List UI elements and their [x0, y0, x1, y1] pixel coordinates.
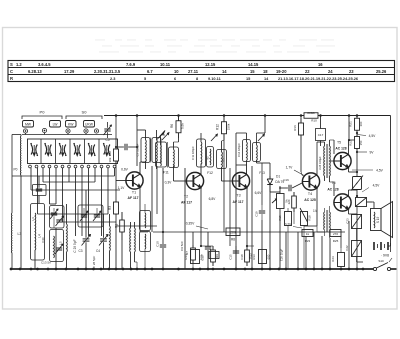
wire F13	[247, 133, 271, 176]
wire T3 base	[222, 180, 233, 182]
svg-text:R9: R9	[215, 254, 219, 258]
svg-text:F11: F11	[163, 171, 169, 175]
svg-text:R21: R21	[349, 121, 353, 127]
wire net b	[156, 166, 158, 214]
svg-text:R18: R18	[308, 215, 312, 221]
svg-text:7.6.9: 7.6.9	[126, 62, 136, 67]
svg-text:1k: 1k	[306, 232, 310, 236]
svg-text:L4: L4	[31, 217, 35, 221]
preset R18	[300, 208, 312, 269]
bracket S0	[66, 110, 102, 120]
svg-text:C10: C10	[156, 241, 160, 247]
svg-text:92: 92	[206, 156, 210, 160]
svg-text:1,7V: 1,7V	[286, 166, 294, 170]
label C9	[180, 241, 184, 251]
svg-text:C14 180pF: C14 180pF	[237, 143, 241, 157]
svg-text:100k: 100k	[200, 253, 204, 260]
svg-text:D1: D1	[276, 175, 280, 179]
electrolytic C22	[345, 229, 362, 263]
wire R26	[356, 172, 358, 190]
AGC line	[153, 222, 345, 233]
driver transformer Tr1	[317, 140, 330, 182]
resistor R10 box	[304, 111, 318, 123]
switch wafer 4	[73, 143, 81, 156]
button box KW	[66, 121, 77, 128]
svg-text:C24 100µF: C24 100µF	[318, 156, 322, 170]
svg-text:R7: R7	[185, 251, 189, 255]
svg-text:0,6V: 0,6V	[121, 168, 129, 172]
svg-text:F8: F8	[161, 133, 165, 137]
wire net q	[348, 221, 350, 269]
wire emitter T2 branch	[200, 245, 213, 248]
mixer coil box F9	[140, 204, 151, 269]
svg-text:2.3: 2.3	[110, 76, 116, 81]
junction on top rail	[319, 114, 322, 117]
resistor R16	[293, 116, 304, 177]
trimmer box C27 C28	[78, 205, 103, 227]
output transformer Tr2	[324, 206, 331, 238]
wire F11	[161, 135, 174, 181]
svg-text:24: 24	[328, 69, 333, 74]
junction on top rail	[300, 114, 303, 117]
tuning gang C3	[78, 190, 90, 269]
wire Tr1 sec top	[330, 140, 335, 154]
wire switch top bus	[22, 133, 112, 135]
svg-text:17.29: 17.29	[64, 69, 75, 74]
table row R (resistor numbers)	[10, 76, 359, 81]
svg-text:C19: C19	[255, 211, 259, 217]
wire D1-P1	[270, 185, 280, 270]
wire R6-F11	[174, 141, 179, 143]
svg-text:9V: 9V	[369, 151, 374, 155]
svg-text:T2: T2	[184, 195, 188, 199]
switch wafer 1	[30, 143, 38, 156]
boxed label R14	[184, 250, 204, 264]
junction on top rail	[264, 114, 267, 117]
coil box L5b	[50, 230, 64, 262]
svg-text:C4: C4	[96, 249, 100, 253]
label 4,5V mid	[352, 169, 384, 173]
label 4,5V top	[357, 134, 376, 138]
svg-text:AF 117: AF 117	[181, 201, 192, 205]
wire mid bus	[116, 225, 157, 227]
label C13	[31, 217, 51, 264]
svg-text:C13 5n: C13 5n	[41, 261, 51, 265]
svg-text:R3: R3	[108, 206, 112, 210]
resistor R7	[185, 232, 195, 269]
switch wafer 2	[44, 143, 52, 156]
ghost bleed-through (decorative)	[95, 39, 335, 53]
wire down x357	[356, 207, 358, 270]
svg-text:9.10.11: 9.10.11	[208, 76, 222, 81]
switch wafer 3	[59, 143, 67, 156]
svg-text:R15: R15	[278, 215, 282, 221]
wire T3 collector	[246, 161, 248, 175]
wire T5 emitter	[349, 168, 358, 173]
svg-text:15: 15	[250, 69, 255, 74]
svg-text:KW: KW	[68, 122, 74, 126]
wire T2 emitter	[200, 188, 202, 247]
svg-text:C 28 5pF: C 28 5pF	[92, 256, 96, 269]
wire antenna left	[12, 135, 21, 214]
svg-text:R13: R13	[252, 254, 256, 260]
capacitor C6	[115, 144, 137, 150]
wire net a	[151, 166, 153, 232]
svg-text:S0: S0	[82, 110, 88, 115]
switch bank outline	[28, 139, 118, 164]
wire net d	[184, 168, 186, 269]
svg-text:3.6.4.5: 3.6.4.5	[38, 62, 51, 67]
trimmer box C2	[50, 206, 65, 229]
svg-text:R12: R12	[216, 124, 220, 130]
wire net c	[162, 168, 164, 233]
table row C (capacitor numbers)	[10, 69, 387, 74]
svg-text:C18: C18	[240, 254, 244, 260]
wire R22 down	[356, 152, 358, 173]
wire Tr1 sec bot	[330, 182, 335, 196]
IF transformer F11	[156, 133, 179, 175]
svg-text:150k: 150k	[227, 123, 231, 130]
switch wafer 6	[103, 143, 111, 156]
resistor R23 box	[302, 230, 313, 244]
svg-text:C15: C15	[229, 254, 233, 260]
button box UKW	[84, 121, 95, 128]
junction on top rail	[136, 114, 139, 117]
wire R3 down	[115, 215, 117, 269]
top supply rail	[104, 115, 391, 117]
wire C2 down	[55, 228, 57, 269]
contact eyelet 1	[23, 129, 27, 133]
bracket P0	[22, 110, 62, 120]
svg-text:C17: C17	[318, 133, 324, 137]
right edge supply wire	[390, 116, 392, 244]
svg-text:C 29 5pF: C 29 5pF	[73, 239, 77, 252]
svg-text:15: 15	[246, 76, 251, 81]
svg-text:6: 6	[174, 76, 177, 81]
svg-text:93: 93	[222, 158, 226, 162]
wire x137 vertical	[136, 116, 138, 167]
electrolytic C23	[346, 215, 362, 229]
wire T5 collector	[349, 140, 358, 155]
svg-text:AC 125: AC 125	[304, 198, 316, 202]
contact eyelet 4	[84, 129, 88, 133]
svg-text:16: 16	[318, 62, 323, 67]
ferrite antenna coil L1	[19, 135, 22, 177]
resistor R25 box	[322, 230, 341, 244]
svg-text:10.11: 10.11	[160, 62, 171, 67]
junction on top rail	[177, 114, 180, 117]
wire T6 emitter	[349, 209, 358, 214]
svg-text:t°: t°	[356, 182, 359, 186]
svg-text:R24: R24	[331, 256, 335, 262]
wire L4	[35, 196, 39, 270]
wire net l	[305, 236, 307, 269]
resistor R1	[115, 212, 125, 269]
bottom ground rail	[11, 268, 397, 270]
svg-text:R10: R10	[311, 119, 317, 123]
label avC13	[92, 256, 96, 269]
wire T2 base	[174, 180, 187, 182]
transistor T3 AF117	[232, 171, 265, 204]
svg-text:T4: T4	[308, 192, 312, 196]
wire T1 collector	[140, 162, 146, 174]
wire T1 base	[116, 180, 126, 182]
osc coil L5	[66, 204, 69, 269]
wire net m	[313, 232, 315, 269]
wire emitter T3 branch	[246, 245, 254, 247]
wire T1 emitter	[140, 187, 148, 232]
thermistor R26	[351, 176, 363, 191]
resistor R3	[108, 201, 119, 215]
coupling coil L3	[11, 213, 21, 269]
svg-text:6.7: 6.7	[147, 69, 153, 74]
svg-text:T1: T1	[132, 191, 136, 195]
label C29	[73, 239, 77, 252]
resistor R8 box	[226, 228, 240, 242]
svg-text:R2: R2	[108, 151, 112, 155]
svg-text:0,35V: 0,35V	[186, 222, 195, 226]
svg-text:6,6V: 6,6V	[255, 191, 263, 195]
wire T4 collector	[316, 160, 318, 175]
wire T4 emitter join	[304, 226, 317, 232]
capacitor C17	[316, 116, 326, 147]
svg-text:270: 270	[333, 232, 338, 236]
svg-text:8: 8	[196, 76, 199, 81]
svg-text:C: C	[10, 69, 13, 74]
label 0,2V	[285, 223, 302, 229]
transistor T1 AF117	[118, 168, 143, 201]
resistor R11	[223, 140, 225, 232]
svg-text:1.2: 1.2	[16, 62, 22, 67]
table component-location index	[8, 61, 395, 82]
capacitor C12	[201, 232, 212, 269]
IF winding F12b	[207, 150, 226, 176]
svg-text:C9 5nF: C9 5nF	[180, 241, 184, 251]
wire T5 rail	[348, 116, 350, 142]
svg-text:C30: C30	[41, 237, 45, 243]
svg-text:C3: C3	[78, 249, 82, 253]
svg-text:800Ω: 800Ω	[307, 111, 315, 115]
junction on top rail	[348, 114, 351, 117]
svg-text:10: 10	[174, 69, 179, 74]
wire T6 collector	[349, 190, 358, 196]
loudspeaker S19	[371, 202, 393, 238]
wire det vertical	[269, 176, 271, 179]
junction on top rail	[356, 114, 359, 117]
svg-text:S10: S10	[378, 259, 384, 263]
wire net k	[297, 232, 299, 269]
wire R2 down	[115, 163, 117, 201]
svg-text:4,5V: 4,5V	[373, 184, 381, 188]
contact eyelet 5	[94, 129, 98, 133]
svg-text:C11 180pF: C11 180pF	[191, 146, 195, 160]
electrolytic C25	[356, 195, 373, 207]
svg-text:0,3V: 0,3V	[165, 181, 173, 185]
tuning gang C4	[96, 214, 108, 269]
button box LW	[50, 121, 61, 128]
wire Tr2	[317, 231, 325, 233]
svg-text:6.28.13: 6.28.13	[28, 69, 42, 74]
coil box L4	[31, 204, 45, 261]
svg-text:AC 128: AC 128	[335, 147, 346, 151]
capacitor C16	[279, 178, 302, 191]
svg-text:2.30.31.31.3.5: 2.30.31.31.3.5	[94, 69, 121, 74]
wire net p	[340, 236, 342, 248]
svg-text:18: 18	[263, 69, 268, 74]
label 9V	[356, 151, 374, 155]
svg-text:MW: MW	[25, 122, 32, 126]
svg-text:220: 220	[287, 199, 291, 204]
junctions on ground rail	[10, 268, 365, 271]
svg-text:T3: T3	[236, 194, 240, 198]
svg-text:R25: R25	[333, 239, 339, 243]
svg-text:4,5V: 4,5V	[369, 134, 377, 138]
svg-text:25.26: 25.26	[376, 69, 387, 74]
svg-text:UKW: UKW	[85, 122, 94, 126]
resistor R21	[349, 116, 364, 135]
svg-text:12.15: 12.15	[205, 62, 216, 67]
svg-text:5: 5	[144, 76, 147, 81]
wire Tr1 mid	[330, 160, 334, 162]
svg-text:300: 300	[359, 121, 363, 126]
wire net e	[229, 168, 231, 246]
battery 9V	[374, 242, 391, 258]
preset R15	[278, 208, 292, 269]
svg-text:AC 128: AC 128	[327, 188, 338, 192]
wire net f	[235, 165, 237, 269]
junction on top rail	[223, 114, 226, 117]
label R5 box	[209, 252, 219, 259]
resistor R9b	[211, 246, 219, 266]
button box MW	[23, 121, 34, 128]
svg-text:S 19: S 19	[376, 216, 380, 223]
IF transformer F10	[136, 131, 166, 163]
svg-text:27.11: 27.11	[188, 69, 199, 74]
contact eyelet 2	[42, 128, 46, 132]
svg-text:R22: R22	[349, 140, 353, 146]
capacitor C14 branch	[236, 133, 247, 165]
power switch S10	[373, 258, 392, 271]
IF transformer F12	[191, 134, 218, 167]
wire rail to F13	[257, 116, 266, 142]
svg-text:AF 117: AF 117	[233, 200, 244, 204]
wire T3 emitter	[246, 188, 248, 247]
wire net r	[357, 261, 363, 263]
wire T2 collector	[200, 164, 202, 175]
svg-text:T6: T6	[331, 181, 335, 185]
svg-text:P0: P0	[40, 110, 46, 115]
resistor R6	[170, 116, 185, 143]
svg-text:S: S	[10, 62, 13, 67]
wire F10 top	[137, 130, 157, 140]
transistor T4 AC125	[302, 173, 319, 213]
IF transformer F13	[237, 134, 265, 162]
svg-text:5,6k: 5,6k	[181, 123, 185, 129]
svg-text:C16: C16	[283, 178, 289, 182]
switch contact row	[29, 165, 116, 168]
wire net o	[329, 238, 331, 269]
svg-text:AF 117: AF 117	[128, 196, 139, 200]
wire battery	[380, 252, 382, 258]
svg-text:30k: 30k	[108, 157, 112, 162]
transistor T2 AF117	[165, 172, 217, 204]
label 1,7V	[286, 166, 305, 177]
svg-text:C7 180pF: C7 180pF	[136, 143, 140, 156]
svg-text:22: 22	[305, 69, 310, 74]
volume pot P1	[272, 186, 289, 269]
capacitor C19	[255, 205, 266, 220]
svg-text:P0: P0	[14, 168, 18, 172]
svg-text:150: 150	[359, 140, 363, 145]
oscillator transformer L7	[130, 222, 137, 269]
wire net g	[251, 166, 253, 269]
svg-text:19-20: 19-20	[276, 69, 287, 74]
wire F12	[201, 133, 222, 181]
svg-text:T5: T5	[337, 141, 341, 145]
svg-text:4,5V: 4,5V	[376, 169, 384, 173]
padder capacitor C1	[33, 176, 47, 196]
svg-text:L5: L5	[59, 241, 63, 245]
trimmer capacitor C5	[104, 122, 112, 142]
svg-text:14.15: 14.15	[248, 62, 259, 67]
wire net i	[279, 210, 281, 269]
svg-text:L4: L4	[38, 234, 42, 238]
svg-text:1,1V: 1,1V	[118, 186, 126, 190]
wire net j	[285, 232, 287, 269]
wire speaker top	[367, 202, 375, 209]
svg-text:6,8V: 6,8V	[209, 197, 217, 201]
wire net n	[321, 236, 323, 269]
osc coil L6	[109, 214, 112, 269]
svg-text:R16: R16	[293, 125, 297, 131]
capacitor C10	[156, 232, 167, 269]
boxed label R13b	[252, 250, 271, 264]
label C18	[240, 254, 250, 261]
svg-text:R: R	[10, 76, 13, 81]
svg-text:21.13.16.17.18.20.21.19.21.22.: 21.13.16.17.18.20.21.19.21.22.23.25.24.2…	[278, 76, 359, 81]
wire x116 vertical	[115, 116, 117, 148]
svg-text:· 9V8: · 9V8	[381, 254, 389, 258]
resistor R22	[349, 133, 364, 152]
svg-text:R8: R8	[231, 238, 235, 242]
resistor R24	[331, 248, 345, 269]
capacitor C15	[229, 246, 240, 269]
svg-text:23: 23	[349, 69, 354, 74]
svg-text:C22: C22	[345, 245, 349, 251]
label 4,5V low	[362, 184, 380, 193]
svg-text:14: 14	[222, 69, 227, 74]
svg-text:LW: LW	[53, 122, 59, 126]
resistor R12	[216, 116, 231, 142]
switch wiring harness	[12, 168, 120, 236]
transistor T5 AC128	[334, 141, 351, 170]
svg-text:14: 14	[264, 76, 269, 81]
label C20	[280, 249, 284, 262]
junction on top rail	[115, 114, 118, 117]
transistor T6 AC128	[327, 181, 351, 211]
resistor R2	[108, 147, 119, 163]
wire T4 emitter	[316, 188, 318, 226]
resistor R13	[245, 246, 253, 266]
diode D1 OA79	[267, 175, 284, 193]
wire net h	[261, 163, 263, 269]
wire L1 bottom	[20, 176, 22, 269]
switch wafer 5	[88, 143, 96, 156]
svg-text:F12: F12	[207, 171, 213, 175]
wire speaker right	[390, 243, 392, 252]
resistor R17	[287, 192, 296, 224]
wire F10 bot	[146, 161, 157, 169]
